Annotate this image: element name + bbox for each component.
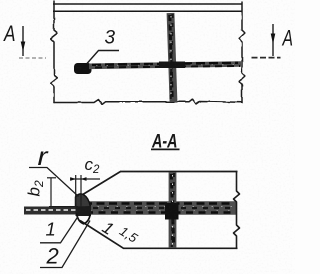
section: bottom outline	[123, 247, 238, 249]
crossing darker patch where seam meets rib	[159, 62, 185, 69]
callout 1 (left plate)	[40, 217, 78, 243]
section: thin plate band (left)	[24, 206, 88, 215]
section marker A (right): arrow line	[272, 24, 274, 56]
svg-text:A: A	[2, 21, 15, 46]
svg-text:3: 3	[105, 28, 116, 49]
weld nugget (dark core at joint)	[76, 205, 92, 216]
plan view top flange edge (upper line)	[53, 3, 242, 5]
transverse rib weld (vertical hatched strip, plan view)	[170, 13, 174, 102]
upper weld bead (section)	[76, 194, 91, 207]
section: transverse rib weld (vertical hatched strip)	[165, 172, 179, 248]
section marker A (right): cutting dash line	[252, 57, 281, 59]
section marker A (left): arrow line	[22, 26, 24, 56]
plan view top flange edge (lower thick line)	[53, 9, 242, 13]
section marker A (left): cutting dash line	[19, 57, 46, 59]
label 3	[87, 28, 119, 64]
dimension c2: arrows	[70, 177, 76, 181]
longitudinal weld seam 3 (horizontal dark band, plan view)	[74, 63, 241, 74]
dimension c2: dimension line	[70, 178, 100, 180]
section: top outline	[120, 171, 238, 173]
section marker A (left): arrowhead	[21, 42, 26, 52]
dimension c2: extension lines	[75, 175, 77, 207]
section: lower bevel line 1:1.5	[80, 221, 124, 249]
section: right edge with break symbols	[234, 172, 240, 249]
section title A-A	[151, 132, 180, 153]
svg-text:2: 2	[46, 244, 59, 269]
plan view left edge with break symbols	[51, 1, 58, 103]
section: upper bevel line 1:1.5	[80, 172, 121, 197]
label r with leader	[29, 141, 79, 197]
svg-text:A: A	[281, 26, 293, 51]
callout 2 (weld bead)	[40, 221, 90, 269]
svg-text:1: 1	[46, 219, 56, 240]
section marker A (right): arrowhead	[271, 34, 276, 45]
svg-text:r: r	[38, 141, 50, 171]
dimension b2: dimension line	[50, 178, 52, 208]
svg-text:1: 1	[99, 218, 117, 239]
dimension b2: top tick	[47, 177, 56, 179]
dimension b2: extension line along plate top	[49, 206, 78, 208]
plan view bottom edge with two break symbols	[54, 99, 242, 105]
section: thick plate band (right of weld)	[80, 204, 236, 213]
svg-text:c2: c2	[85, 155, 101, 176]
plan view right edge with break symbols	[239, 2, 245, 103]
svg-text:1,5: 1,5	[117, 223, 141, 246]
svg-text:b2: b2	[25, 180, 47, 196]
lower weld bead (section)	[77, 214, 91, 224]
